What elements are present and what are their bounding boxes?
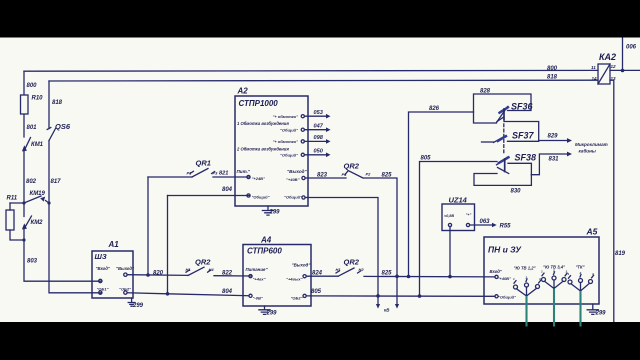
label KM2 [31,220,44,226]
wire 825 rail to A5 [364,275,495,278]
svg-text:063: 063 [480,219,491,225]
svg-text:828: 828 [480,89,491,95]
label QS6 [55,122,71,131]
label 006 [626,45,637,51]
label A4 [260,236,272,245]
svg-text:КА2: КА2 [599,52,616,62]
label A1 ob2 [119,287,131,292]
svg-text:КМ1: КМ1 [31,142,44,148]
label 299 A1 [132,303,144,309]
svg-text:Р2: Р2 [366,172,372,177]
pin A2 field1 plus [301,115,304,118]
contact KM2 [22,216,32,229]
svg-text:13: 13 [611,76,617,81]
label 063 [480,219,491,225]
label 053 [314,110,324,116]
wire 822 [214,275,251,277]
ground under A2 [262,206,273,215]
label A2 +24V [252,176,266,181]
svg-text:"+24В": "+24В" [252,176,266,181]
switch QR1 [190,169,215,178]
label microclimate line2 [579,148,596,154]
svg-text:12: 12 [611,64,617,69]
label A5 +40V [498,276,512,281]
label microclimate line1 [575,142,608,147]
label 825 upper [382,173,393,179]
svg-text:804: 804 [222,289,233,295]
label STPR1000 title [239,99,279,108]
wire 804 upper to A2 [168,195,250,197]
node UZ14 feed [448,275,452,279]
wire 830 loop [474,174,531,186]
label A4 +4in [253,277,266,282]
svg-text:053: 053 [314,110,324,116]
label 818 left [52,100,63,106]
box A1 [92,251,133,298]
wire QR1 to A2 [148,176,250,178]
label QR2 lower right [344,258,360,267]
svg-text:Пит.": Пит." [237,169,251,174]
label pin 11 [591,65,596,70]
svg-text:803: 803 [27,259,38,265]
svg-text:299: 299 [269,210,281,216]
svg-text:кабины: кабины [579,148,596,154]
svg-text:"Выход": "Выход" [287,169,308,174]
svg-text:817: 817 [51,179,62,185]
svg-text:Н4: Н4 [209,267,215,272]
selector group 2 [542,272,568,289]
contact KM19 [10,196,49,203]
ground under A5 [587,304,598,314]
svg-text:СТПР1000: СТПР1000 [239,99,279,108]
label 299 A2 [269,210,281,216]
svg-text:825: 825 [382,271,393,277]
node 826 branch [407,275,411,279]
svg-text:800: 800 [547,66,558,72]
svg-text:"Общий": "Общий" [252,195,270,200]
svg-text:819: 819 [615,251,626,257]
label R11 [7,196,18,202]
svg-text:"+40В": "+40В" [498,276,512,281]
svg-text:805: 805 [421,156,432,162]
svg-text:SF38: SF38 [515,153,537,163]
pin A1 common right [124,291,127,294]
node common/rail [376,294,380,298]
label pin 13 [611,76,617,81]
pin A2 common in [247,194,250,197]
box A2 [235,96,308,206]
wire 063 to R55 [470,223,497,228]
wire 805 vertical and horizontal to SF38 [420,162,498,297]
svg-text:804: 804 [222,187,233,193]
label group1 pins [513,276,541,282]
pin A2 +24V [247,175,250,178]
svg-text:≈0,8В: ≈0,8В [444,214,454,218]
label 821 [219,171,228,177]
label UZ14 [449,196,468,205]
label A4 pitanie [246,267,269,272]
label QR1 P3 [213,171,219,176]
svg-text:830: 830 [511,189,522,195]
svg-text:822: 822 [222,271,233,277]
label 828 [480,89,491,95]
label A5 vhod [490,269,503,274]
label QR2r N1 [336,267,342,272]
svg-text:Н1: Н1 [336,267,342,272]
svg-text:Р5: Р5 [342,172,348,177]
label 803 [27,259,38,265]
wire common arrow below [376,296,380,309]
svg-text:006: 006 [626,45,637,51]
svg-text:ШЗ: ШЗ [95,252,107,261]
label KM1 [31,142,44,148]
svg-text:"ТК": "ТК" [575,265,585,270]
breaker SF36 loop 828 [474,94,532,123]
wire 826 vertical and horizontal [409,112,474,277]
label 818 right [547,75,558,81]
box UZ14 [442,204,475,231]
switch QR2 lower left [186,267,211,275]
svg-text:QR2: QR2 [344,162,360,171]
wire 006 vertical from top edge [622,38,624,71]
label PN i ZU title [488,245,522,255]
svg-text:14: 14 [592,76,598,81]
label group3 [575,265,585,270]
svg-text:299: 299 [266,311,278,317]
svg-text:"Выход": "Выход" [292,263,312,268]
label KM19 [30,191,46,197]
pin A2 field1 common [301,128,304,131]
svg-text:QR1: QR1 [196,159,211,168]
wire 820 [127,274,188,277]
wire 831 [531,152,572,175]
svg-text:050: 050 [314,148,324,154]
switch QR2 lower right [336,268,361,276]
label net arrow kv [384,308,390,313]
pin A2 common out [302,196,305,199]
pin A5 +40V [495,275,498,278]
label QR2l N1 [186,267,192,272]
label A2 row1 [237,121,289,126]
selector group 1 [514,279,541,296]
label 823 [317,173,328,179]
label 098 [314,135,324,141]
svg-text:SF36: SF36 [511,102,534,112]
svg-text:"+ обмотки": "+ обмотки" [272,139,298,144]
pin UZ14 right [466,223,469,226]
svg-text:"Общий": "Общий" [280,152,298,157]
node R11 top [22,201,25,204]
box A4 [243,245,311,307]
label A2 pit [237,169,251,174]
label A2 obshij1 [280,127,298,132]
wire 800 top rail [24,69,640,72]
label 050 [314,148,324,154]
svg-text:818: 818 [547,75,558,81]
label UZ14 right pin [466,213,472,217]
pin A2 +40V out [302,176,305,179]
wire 825 arrow below [395,276,399,308]
svg-text:818: 818 [52,100,63,106]
label A2 obmotka2 pin [272,139,298,144]
label 824 [312,271,323,277]
svg-text:825: 825 [382,173,393,179]
wire QR1 branch vertical [147,177,149,275]
svg-text:824: 824 [312,271,323,277]
box A5 [484,237,599,304]
svg-text:"+4вх": "+4вх" [253,277,266,282]
svg-text:"+": "+" [466,213,472,217]
label group3 pins [568,271,595,276]
label pin 14 [592,76,598,81]
breaker SF38 contact [497,157,509,174]
label QR2 lower left [195,258,211,267]
label 805 lower [311,289,322,295]
svg-text:299: 299 [595,311,607,317]
teal cable 2 [553,289,555,327]
label A2 obshij2 [280,152,298,157]
label UZ14 left pin [444,214,454,218]
svg-text:"-0В": "-0В" [253,296,263,301]
ground under A1 [128,298,135,306]
svg-text:СТПР600: СТПР600 [247,247,282,256]
label 826 [429,106,440,112]
svg-text:2: 2 [552,269,555,273]
svg-text:А4: А4 [260,236,272,245]
teal cable 3 [579,291,581,327]
label group2 pins [541,269,568,274]
linkage dashed SF36-SF38 [503,124,505,154]
label SF38 [515,153,537,163]
pin A2 field2 plus [301,140,304,143]
svg-text:823: 823 [317,173,328,179]
wire UZ14 down feed [449,227,451,277]
svg-text:"Вход": "Вход" [96,266,111,271]
node KM19 right [47,201,50,204]
pin A4 +out [303,275,306,278]
svg-text:805: 805 [311,289,322,295]
svg-text:КМ19: КМ19 [30,191,46,197]
svg-text:Р3: Р3 [213,171,219,176]
switch QR2 upper [345,171,363,179]
label SF37 [512,131,535,141]
label A1 ob1 [97,287,109,292]
pin A4 -0V [249,294,252,297]
pin A1 input [99,279,102,282]
label 820 [153,271,164,277]
label A1 vyhod [116,266,135,271]
svg-text:А1: А1 [108,240,120,249]
pin A4 common out [303,294,306,297]
wire rail2 left (A1 to A4) [127,293,249,296]
svg-text:А5: А5 [586,227,598,237]
label A2 obmotka1 pin [272,114,298,119]
svg-text:1 Обмотка возбуждения: 1 Обмотка возбуждения [237,121,289,126]
svg-text:802: 802 [26,179,37,185]
svg-text:2: 2 [579,271,582,275]
wire 804 branch vertical [167,196,169,294]
wire 824 [306,275,338,277]
node R11 bottom [22,238,25,241]
svg-text:"+40В": "+40В" [286,177,300,182]
svg-text:Микроклимат: Микроклимат [575,142,608,147]
wire SF38 right side [508,163,531,174]
resistor R10 [21,95,29,114]
svg-text:кВ: кВ [384,308,390,313]
label A2 row2 [236,147,289,152]
label 830 [511,189,522,195]
svg-text:"Общий": "Общий" [280,127,298,132]
svg-text:"ОБ1": "ОБ1" [97,287,109,292]
label A2 obshij in [252,195,270,200]
svg-text:"Ю ТВ 1,2": "Ю ТВ 1,2" [513,266,536,271]
label 829 [548,134,559,140]
node 805 branch [418,294,422,298]
svg-text:1: 1 [541,270,543,274]
label A1 vhod [96,266,111,271]
label A2 [237,87,249,96]
label 819 [615,251,626,257]
black letterbox bottom [0,322,640,360]
wire 829 [539,138,572,143]
wire SF36 out to 829 [504,120,539,141]
label QR2u P2 [366,172,372,177]
svg-text:11: 11 [591,65,596,70]
svg-text:1: 1 [568,272,570,276]
label R55 [500,224,512,230]
label A4 +4out [286,277,303,282]
label pin 12 [611,64,617,69]
label 800 left [27,83,38,89]
node 825/rail [395,275,399,279]
svg-text:"Общий": "Общий" [498,295,516,300]
label R10 [32,96,44,102]
svg-text:"ОБ2": "ОБ2" [291,296,303,301]
node junction 006/800 [621,69,625,73]
label QR2 upper [344,162,360,171]
node 804/rail [166,292,170,296]
svg-text:Н1: Н1 [186,267,192,272]
relay KA2 symbol [598,64,610,84]
label A2 obshij out [284,195,302,200]
wire 047 stub [304,127,330,132]
breaker SF37 [482,136,539,143]
svg-text:047: 047 [314,123,324,129]
label 831 [549,157,560,163]
label 804 upper [222,187,233,193]
label KA2 [599,52,616,62]
wire 098 stub [304,139,330,144]
contact KM1 [22,138,31,152]
wire 825 upper [364,178,397,276]
label QR2l N4 [209,267,215,272]
svg-text:R55: R55 [500,224,512,230]
pin A1 common left [99,291,102,294]
svg-text:КМ2: КМ2 [31,220,44,226]
svg-text:801: 801 [27,125,38,131]
svg-text:1: 1 [513,277,515,281]
label SHZ title [95,252,107,261]
pin A4 +in [249,275,252,278]
svg-text:800: 800 [27,83,38,89]
wire 805 rail to A5 [306,295,495,297]
svg-text:Н2: Н2 [359,267,365,272]
svg-text:826: 826 [429,106,440,112]
pin UZ14 left [448,223,451,226]
svg-text:831: 831 [549,157,560,163]
svg-text:UZ14: UZ14 [449,196,468,205]
breaker SF36 contact [497,107,509,123]
svg-text:"Общий": "Общий" [284,195,302,200]
svg-text:"Выход": "Выход" [116,266,135,271]
label A4 -0V [253,296,263,301]
svg-text:820: 820 [153,271,164,277]
teal cable 1 [525,296,527,327]
node 820/QR1 [146,273,150,277]
label group1 [513,266,536,271]
label QR2u P5 [342,172,348,177]
wire 819 vertical right side [610,80,614,322]
label group2 [543,265,566,270]
svg-text:299: 299 [132,303,144,309]
wire 053 stub [304,114,330,119]
label A5 obshij [498,295,516,300]
svg-text:QR2: QR2 [344,258,360,267]
wire 823 [305,177,346,179]
label A4 ob2 [291,296,303,301]
svg-text:098: 098 [314,135,324,141]
svg-text:"ОБ2": "ОБ2" [119,287,131,292]
svg-text:821: 821 [219,171,228,177]
switch QS6 [47,128,55,141]
label SF36 [511,102,534,112]
svg-text:QS6: QS6 [55,122,71,131]
label 825 lower [382,271,393,277]
label 822 [222,271,233,277]
wire 050 stub [304,153,330,158]
label 817 [51,179,62,185]
label 299 A5 [595,311,607,317]
pin A2 field2 common [301,153,304,156]
svg-text:829: 829 [548,134,559,140]
label A5 [586,227,598,237]
label 804 lower [222,289,233,295]
wire left bus 818/817 [49,81,101,293]
svg-text:R10: R10 [32,96,44,102]
wire 818 second rail [49,79,598,82]
svg-text:Питание": Питание" [246,267,269,272]
selector group 3 [568,274,594,291]
label 800 right [547,66,558,72]
label QR1 [196,159,211,168]
label A2 +40V [286,177,300,182]
label 299 A4 [266,311,278,317]
svg-text:"+ обмотки": "+ обмотки" [272,114,298,119]
pin A5 common [495,295,498,298]
label QR2r N2 [359,267,365,272]
svg-text:SF37: SF37 [512,131,535,141]
svg-text:А2: А2 [237,87,249,96]
svg-text:QR2: QR2 [195,258,211,267]
wire A2 common out down [305,198,378,296]
svg-text:2 Обмотка возбуждения: 2 Обмотка возбуждения [236,147,289,152]
label 802 [26,179,37,185]
label 801 [27,125,38,131]
svg-text:2: 2 [525,276,528,280]
svg-text:Вход": Вход" [490,269,503,274]
label A4 vyhod [292,263,312,268]
label 047 [314,123,324,129]
